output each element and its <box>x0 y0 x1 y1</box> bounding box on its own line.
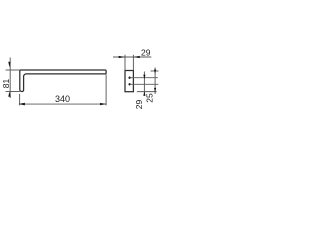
wall plate rect (end view) <box>125 71 133 92</box>
dim 340 extension line right <box>105 75 107 106</box>
towel bar profile (side view) <box>20 70 106 92</box>
svg-text:25: 25 <box>145 93 155 103</box>
dim 29 top left arrow <box>119 56 125 58</box>
dim 29 top extension line right <box>132 55 134 71</box>
dim 29 top right arrow <box>133 56 139 58</box>
hole dot 1 <box>128 77 130 79</box>
dim 340 extension line left <box>19 94 21 106</box>
dim 29 right top arrow <box>143 75 145 80</box>
dim 29 right dimension line <box>143 72 145 96</box>
dim 29 top extension line left <box>124 55 126 71</box>
dim 81 extension line top <box>6 69 20 71</box>
ext line hole1 <box>131 77 158 79</box>
dim 29 top dimension line <box>113 56 151 58</box>
ext stub plate top right <box>151 70 159 72</box>
dim 25 right bottom arrow <box>154 88 156 92</box>
dim 340 right arrow <box>100 103 106 105</box>
dim 81 dimension line <box>9 58 11 99</box>
dim 25 right top arrow <box>154 70 156 74</box>
dim 25 right dimension line <box>154 68 156 95</box>
svg-text:81: 81 <box>1 78 11 88</box>
svg-text:340: 340 <box>55 94 70 104</box>
dim 81 top arrow <box>8 62 10 67</box>
dim 340 left arrow <box>18 103 25 106</box>
ext line hole2 <box>131 83 158 85</box>
dim 340 dimension line <box>20 103 107 105</box>
dim 81 extension line bottom <box>6 91 20 93</box>
dim 81 bottom arrow <box>8 92 10 97</box>
ext line plate bottom <box>137 91 157 93</box>
svg-text:29: 29 <box>141 47 151 57</box>
dim 29 right bottom arrow <box>143 91 145 96</box>
svg-text:29: 29 <box>134 99 144 109</box>
hole dot 2 <box>128 83 130 85</box>
